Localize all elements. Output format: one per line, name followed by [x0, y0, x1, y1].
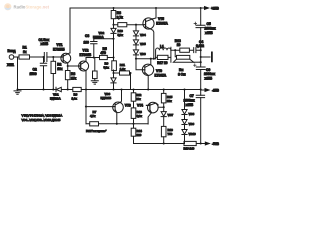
- resistor R9 vertical to ground: [94, 58, 96, 72]
- resistor R12: [133, 90, 135, 108]
- resistor R6: [73, 87, 81, 91]
- svg-text:VD4...VD6,VD8...VD10 Д814Б: VD4...VD6,VD8...VD10 Д814Б: [22, 118, 61, 122]
- wire R1-C1: [30, 56, 45, 58]
- transistor VT2: [79, 61, 89, 71]
- svg-text:R19 140: R19 140: [184, 147, 195, 150]
- node C3 bottom: [93, 56, 95, 58]
- resistor R9h (horizontal near R11): [114, 73, 131, 90]
- resistor R8: [113, 8, 115, 25]
- svg-text:VD7: VD7: [168, 113, 174, 117]
- resistor R3: [67, 66, 69, 90]
- node R2 top: [52, 56, 54, 58]
- right supply column: [200, 8, 202, 144]
- svg-text:VT3,VT4 КТ602А, VD3 КД521А: VT3,VT4 КТ602А, VD3 КД521А: [22, 114, 64, 118]
- svg-text:4,7к: 4,7к: [90, 114, 96, 118]
- diode VD10: [182, 130, 187, 135]
- svg-text:10к: 10к: [57, 67, 63, 71]
- diode VD1: [55, 87, 57, 92]
- transistor VT6: [142, 64, 153, 75]
- resistor R17: [156, 50, 171, 62]
- svg-text:VT2: VT2: [83, 48, 89, 52]
- resistor R15: [163, 90, 165, 108]
- wire VT1 collector to rail: [69, 8, 71, 53]
- -25V arrow: [205, 88, 211, 92]
- svg-text:10: 10: [177, 43, 181, 47]
- node rail-R8: [113, 7, 115, 9]
- wire VT2 collector up: [85, 58, 87, 62]
- svg-text:КТ807А: КТ807А: [155, 74, 167, 78]
- svg-text:КД521Б: КД521Б: [101, 96, 112, 100]
- ground left: [14, 91, 21, 94]
- diode VD6: [133, 50, 138, 55]
- svg-text:Rн: Rн: [179, 68, 183, 72]
- svg-text:КД521А: КД521А: [50, 96, 61, 100]
- wire VD2 node down to R11: [113, 39, 115, 60]
- wire R18: [171, 49, 194, 51]
- svg-text:C2: C2: [33, 67, 37, 71]
- transistor VT5: [143, 18, 154, 29]
- svg-text:R7: R7: [93, 110, 97, 114]
- svg-text:XW1: XW1: [7, 63, 14, 67]
- capacitor C6: [196, 67, 205, 70]
- capacitor C3: [91, 39, 97, 58]
- svg-text:R2: R2: [57, 63, 61, 67]
- speaker BA1: [175, 50, 176, 57]
- svg-text:C6: C6: [206, 68, 210, 72]
- resistor R19: [184, 141, 196, 145]
- svg-text:1к: 1к: [23, 50, 27, 54]
- svg-text:R1: R1: [23, 45, 27, 49]
- diode VD4: [135, 25, 137, 31]
- +25V arrow: [204, 6, 210, 10]
- resistor R18: [180, 48, 190, 52]
- mid common wire: [18, 89, 201, 91]
- capacitor C4: [194, 48, 201, 53]
- svg-text:R3: R3: [71, 72, 75, 76]
- svg-text:2000мк: 2000мк: [205, 27, 216, 31]
- diode VD2: [113, 25, 115, 29]
- capacitor C7: [196, 95, 204, 97]
- svg-text:VT4: VT4: [137, 103, 143, 107]
- ground right bar: [201, 56, 210, 58]
- wire collector node y57.5: [86, 57, 114, 59]
- capacitor C5: [196, 25, 205, 27]
- resistor R10: [118, 23, 127, 27]
- resistor R7: [90, 122, 99, 126]
- svg-text:VD8: VD8: [189, 112, 195, 116]
- svg-text:VD5: VD5: [140, 42, 146, 46]
- svg-text:VT6: VT6: [156, 69, 162, 73]
- svg-text:+25B: +25B: [211, 7, 219, 11]
- wire XW1 shield down: [17, 57, 19, 90]
- svg-text:КТ807А: КТ807А: [156, 22, 168, 26]
- inductor L1: [156, 47, 171, 58]
- resistor R11: [112, 61, 117, 71]
- svg-text:2000мк: 2000мк: [204, 72, 215, 76]
- -50V arrow: [205, 141, 211, 145]
- node C2 top: [42, 56, 44, 58]
- capacitor C1: [44, 53, 47, 62]
- diode VD7: [163, 107, 165, 111]
- wire VT2 emitter down long: [85, 71, 87, 124]
- svg-text:8 Ом: 8 Ом: [178, 72, 186, 76]
- svg-text:-50B: -50B: [212, 142, 220, 146]
- svg-text:R12″так нужно″: R12″так нужно″: [86, 129, 107, 133]
- svg-text:R5: R5: [103, 47, 107, 51]
- svg-text:RadioStorage.net: RadioStorage.net: [14, 4, 50, 9]
- svg-text:x25Б: x25Б: [186, 103, 194, 107]
- top +25V rail wire: [70, 7, 204, 9]
- svg-text:27к: 27к: [71, 76, 77, 80]
- svg-text:0,022: 0,022: [196, 44, 204, 48]
- svg-text:VD6: VD6: [140, 52, 146, 56]
- svg-text:VD10: VD10: [189, 132, 197, 136]
- capacitor C2: [40, 57, 46, 90]
- svg-text:C3: C3: [85, 34, 89, 38]
- svg-text:x25Б: x25Б: [205, 77, 213, 81]
- svg-text:5,1к: 5,1к: [104, 65, 110, 69]
- resistor R13: [133, 118, 135, 124]
- diode VD8: [182, 110, 187, 115]
- svg-text:100: 100: [84, 41, 90, 45]
- svg-text:1500: 1500: [30, 72, 37, 76]
- svg-text:R17 10: R17 10: [157, 61, 167, 65]
- svg-text:C5: C5: [207, 22, 211, 26]
- wire base node y24.7: [114, 24, 144, 26]
- resistor R16: [161, 126, 166, 136]
- svg-text:VT5: VT5: [158, 17, 164, 21]
- svg-text:C1 5мк: C1 5мк: [39, 38, 50, 42]
- svg-text:220: 220: [137, 133, 142, 137]
- node rail-C5: [200, 7, 202, 9]
- node rail-VT5: [155, 7, 157, 9]
- svg-text:КД521А: КД521А: [93, 35, 104, 39]
- svg-text:750: 750: [168, 132, 173, 136]
- transistor VT1: [61, 53, 71, 63]
- output node wire: [136, 58, 156, 60]
- transistor VT3: [113, 102, 124, 113]
- wire C3 top to VD2 column: [94, 38, 114, 40]
- svg-text:2,7к: 2,7к: [117, 15, 123, 19]
- svg-text:5,1к: 5,1к: [118, 33, 124, 37]
- bottom-left wire: [86, 123, 148, 125]
- diode VD3: [111, 78, 116, 83]
- wire VT1 emitter node: [68, 63, 79, 66]
- resistor R1: [19, 55, 30, 59]
- svg-text:1000мк: 1000мк: [184, 99, 195, 103]
- svg-text:VD4: VD4: [140, 33, 146, 37]
- VD8 column wire: [184, 90, 186, 110]
- svg-text:КТ361Б: КТ361Б: [80, 53, 92, 57]
- svg-text:12к: 12к: [167, 99, 172, 103]
- svg-text:L1: L1: [160, 45, 164, 49]
- svg-text:x16Б: x16Б: [41, 42, 49, 46]
- svg-text:470: 470: [101, 51, 107, 55]
- svg-text:-25B: -25B: [212, 89, 220, 93]
- svg-text:VD9: VD9: [189, 122, 195, 126]
- svg-text:R8: R8: [117, 11, 121, 15]
- resistor R2: [52, 57, 54, 90]
- svg-text:VT3: VT3: [125, 104, 131, 108]
- wire C1 to VT1 base: [47, 56, 61, 58]
- svg-text:VT1: VT1: [57, 43, 63, 47]
- svg-text:13к: 13к: [136, 97, 141, 101]
- bottom rail: [134, 143, 205, 145]
- svg-text:x25Б: x25Б: [205, 31, 213, 35]
- svg-text:8,2к: 8,2к: [137, 114, 143, 118]
- resistor R14: [133, 124, 135, 144]
- diode VD9: [182, 120, 187, 125]
- diode VD5: [133, 40, 138, 45]
- watermark logo: [4, 3, 49, 10]
- svg-text:КТ315Б: КТ315Б: [53, 48, 65, 52]
- svg-text:1,0к: 1,0к: [72, 97, 78, 101]
- svg-text:Вход: Вход: [8, 49, 17, 53]
- resistor R5: [100, 55, 108, 59]
- transistor VT4: [148, 102, 159, 113]
- svg-text:C7: C7: [190, 94, 194, 98]
- input connector XW1: [9, 55, 14, 60]
